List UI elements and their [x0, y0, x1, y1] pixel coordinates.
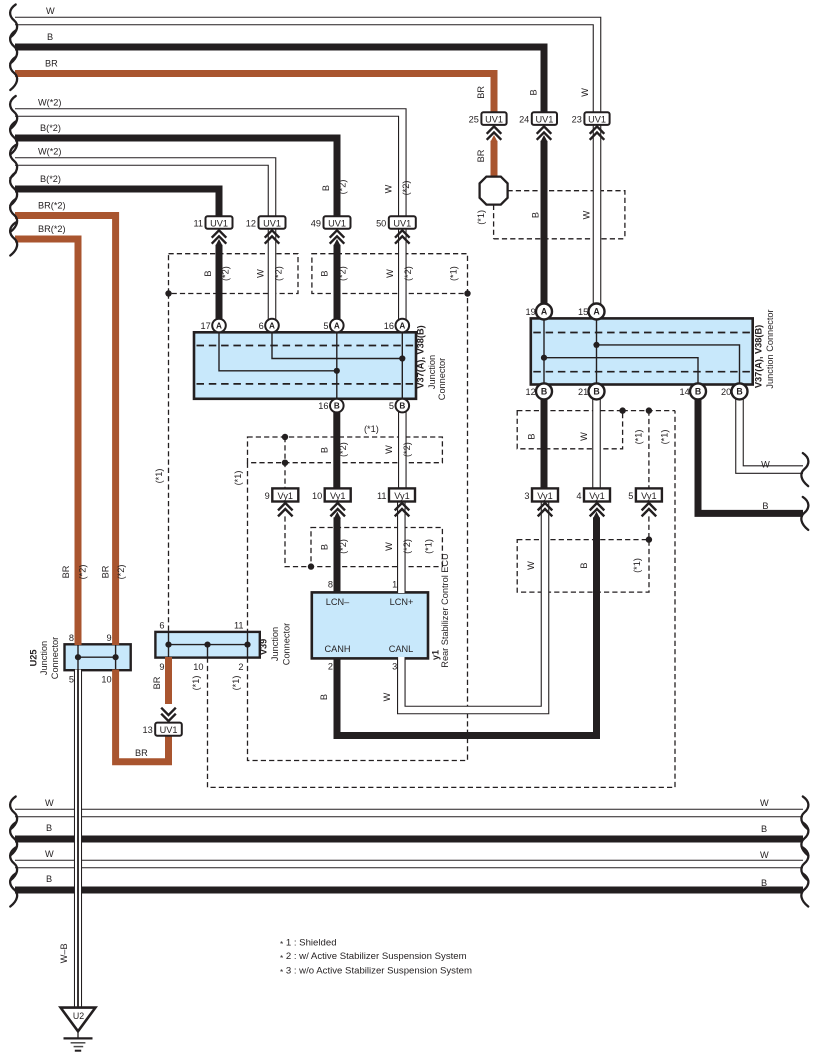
wire W-B from U25 pin 5 to ground U2 — [74, 670, 82, 1009]
connector 25 UV1 — [469, 112, 507, 142]
svg-text:W–B: W–B — [59, 943, 69, 963]
svg-text:2: 2 — [238, 662, 243, 672]
squiggle W row left — [10, 797, 17, 830]
shield box S1 top around 16B/5B wires — [248, 437, 443, 463]
junction connector U25 — [65, 644, 131, 670]
svg-text:16: 16 — [318, 401, 328, 411]
connector 49 UV1 — [311, 216, 351, 246]
svg-text:B: B — [762, 501, 768, 511]
connector 11 Vy1 — [377, 488, 415, 516]
wire W below 11 Vy1 to ECU pin 1 — [397, 502, 406, 593]
svg-text:BR: BR — [45, 59, 58, 69]
svg-text:BR: BR — [61, 565, 71, 578]
wire BR(*2) from left to U25 pin 8 — [15, 239, 78, 645]
svg-text:A: A — [269, 322, 275, 331]
wire BR top from left to 25 UV1 — [15, 74, 494, 114]
svg-text:Rear Stabilizer Control ECU: Rear Stabilizer Control ECU — [440, 553, 450, 667]
shield box S2 around ECU pin 8/1 wires — [311, 528, 442, 567]
squiggle B top — [10, 31, 17, 64]
svg-text:BR(*2): BR(*2) — [38, 201, 66, 211]
squiggle W row2 right — [801, 848, 808, 881]
svg-text:UV1: UV1 — [328, 218, 346, 228]
shield drain line from D1 to V39 pin 6 — [168, 294, 170, 632]
connector 11 UV1 — [193, 216, 232, 246]
svg-text:Junction Connector: Junction Connector — [765, 309, 775, 388]
svg-text:LCN–: LCN– — [326, 597, 350, 607]
svg-text:W: W — [581, 210, 591, 219]
svg-text:W: W — [526, 561, 536, 570]
svg-text:W(*2): W(*2) — [38, 98, 61, 108]
wire W pin 20B to right exit — [740, 392, 804, 470]
svg-text:(*2): (*2) — [338, 180, 348, 195]
svg-text:(*2): (*2) — [78, 565, 88, 580]
wire W(*2) from 50 UV1 to pin 16A — [398, 229, 407, 327]
wire B pin 12B to 3 Vy1 — [541, 393, 548, 489]
svg-text:B: B — [320, 271, 330, 277]
ECU y1 Rear Stabilizer Control ECU — [312, 592, 428, 658]
svg-text:A: A — [541, 307, 548, 317]
connector 9 Vy1 — [265, 488, 299, 516]
svg-text:(*1): (*1) — [154, 469, 164, 484]
svg-text:Connector: Connector — [437, 358, 447, 400]
svg-text:B: B — [761, 878, 767, 888]
connector 4 Vy1 — [576, 488, 610, 518]
squiggle B(*2) second — [10, 173, 17, 206]
svg-text:W: W — [384, 184, 394, 193]
wire B from 24 UV1 to pin 19A — [541, 141, 548, 313]
wire B ECU pin 2 to 4 Vy1 — [337, 517, 597, 735]
shield box around B/W wires below 12B/21B — [517, 411, 622, 449]
svg-text:UV1: UV1 — [160, 725, 178, 735]
shield drain below 5 Vy1 — [648, 516, 650, 539]
wire B(*2) from left to 11 UV1 — [15, 189, 219, 217]
svg-text:A: A — [399, 322, 405, 331]
svg-text:B: B — [695, 387, 701, 397]
junction connector V39 — [155, 632, 259, 658]
svg-text:5: 5 — [69, 674, 74, 684]
pin 19 A — [525, 304, 552, 320]
svg-text:Vy1: Vy1 — [641, 491, 657, 501]
connector 12 UV1 — [246, 216, 286, 244]
shield line below noise filter — [493, 205, 495, 239]
svg-text:UV1: UV1 — [263, 218, 281, 228]
shield box around W/B wires above right exits — [517, 540, 649, 593]
svg-text:(*1): (*1) — [233, 471, 243, 486]
svg-text:6: 6 — [259, 321, 264, 331]
svg-text:U2: U2 — [73, 1011, 84, 1021]
svg-text:B: B — [579, 562, 589, 568]
wire B from 11 UV1 to pin 17A — [216, 245, 223, 327]
svg-text:A: A — [334, 322, 340, 331]
wire W(*2) from left to 12 UV1 — [15, 162, 272, 219]
svg-text:12: 12 — [525, 387, 535, 397]
svg-text:(*2): (*2) — [338, 442, 348, 457]
connector 24 UV1 — [519, 112, 557, 142]
svg-text:W: W — [46, 6, 55, 16]
svg-text:9: 9 — [106, 633, 111, 643]
ground symbol U2 — [61, 1008, 96, 1051]
connector 23 UV1 — [572, 112, 610, 139]
svg-text:11: 11 — [234, 621, 244, 631]
svg-text:Vy1: Vy1 — [278, 491, 294, 501]
svg-text:A: A — [216, 322, 222, 331]
svg-text:y1: y1 — [431, 650, 441, 660]
shield top rail to outer right shield — [623, 410, 675, 412]
svg-text:5: 5 — [628, 491, 633, 501]
svg-text:B: B — [527, 433, 537, 439]
wire W(*2) from left to 50 UV1 — [15, 113, 402, 219]
svg-text:8: 8 — [69, 633, 74, 643]
svg-text:B: B — [203, 271, 213, 277]
svg-text:B: B — [541, 387, 547, 397]
svg-text:B: B — [46, 874, 52, 884]
svg-text:CANH: CANH — [324, 644, 350, 654]
svg-text:(*1): (*1) — [634, 430, 644, 445]
pin 15 A — [578, 304, 605, 320]
shield drain below 9 Vy1 to S2 — [285, 516, 311, 566]
connector 5 Vy1 — [628, 488, 662, 516]
svg-text:(*2): (*2) — [402, 442, 412, 457]
svg-text:UV1: UV1 — [535, 114, 553, 124]
svg-text:Junction: Junction — [39, 641, 49, 675]
svg-text:Vy1: Vy1 — [394, 491, 410, 501]
svg-text:UV1: UV1 — [393, 218, 411, 228]
svg-text:B: B — [530, 212, 540, 218]
svg-text:V39: V39 — [259, 639, 269, 655]
svg-text:B: B — [399, 402, 405, 411]
shield junction dots — [165, 290, 652, 570]
svg-text:Connector: Connector — [282, 623, 292, 665]
block name labels — [29, 309, 775, 679]
svg-text:(*1): (*1) — [424, 539, 434, 554]
wire B lower horizontal full width — [15, 836, 803, 843]
wire B top from left to 24 UV1 — [15, 47, 544, 113]
svg-text:U25: U25 — [29, 650, 39, 667]
pin 16 A — [384, 319, 409, 333]
pin 14 B — [679, 383, 706, 399]
svg-text:12: 12 — [246, 218, 256, 228]
svg-text:Vy1: Vy1 — [537, 491, 553, 501]
svg-text:8: 8 — [328, 579, 333, 589]
svg-text:B(*2): B(*2) — [40, 174, 61, 184]
svg-text:(*2): (*2) — [274, 266, 284, 281]
svg-text:UV1: UV1 — [588, 114, 606, 124]
svg-text:(*2): (*2) — [401, 181, 411, 196]
svg-text:BR: BR — [476, 149, 486, 162]
svg-text:(*1): (*1) — [659, 430, 669, 445]
svg-text:LCN+: LCN+ — [390, 597, 414, 607]
svg-text:14: 14 — [679, 387, 689, 397]
svg-text:23: 23 — [572, 114, 582, 124]
noise filter octagon — [480, 177, 508, 205]
squiggle BR(*2) — [10, 199, 17, 232]
svg-text:Connector: Connector — [50, 637, 60, 679]
junction connector V37(A),V38(B) right block — [531, 318, 753, 384]
svg-text:(*1): (*1) — [476, 210, 486, 225]
wire W from 23 UV1 to pin 15A — [593, 126, 602, 314]
svg-text:(*2): (*2) — [403, 266, 413, 281]
wire W from 12 UV1 to pin 6A — [268, 229, 277, 327]
svg-text:(*2): (*2) — [338, 266, 348, 281]
shield box D1 around 11/12 wires — [169, 254, 299, 294]
wire B(*2) pin 16B to 10 Vy1 — [333, 407, 340, 489]
svg-text:W: W — [761, 459, 770, 469]
svg-text:B: B — [761, 824, 767, 834]
shield path V39 pin 2 to right side of ECU shield — [248, 294, 468, 761]
squiggle W row2 left — [10, 848, 17, 881]
connector 10 Vy1 — [312, 488, 351, 518]
svg-text:24: 24 — [519, 114, 529, 124]
svg-text:25: 25 — [469, 114, 479, 124]
svg-text:1: 1 — [392, 579, 397, 589]
svg-text:BR: BR — [476, 86, 486, 99]
wire W ECU pin 3 to 3 Vy1 — [401, 502, 545, 710]
svg-text:(*2): (*2) — [221, 266, 231, 281]
shield path V39 pin 10 to outer right shield — [208, 411, 676, 788]
svg-text:15: 15 — [578, 307, 588, 317]
junction connector V37(A),V38(B) left block — [194, 332, 416, 399]
svg-text:(*2): (*2) — [338, 539, 348, 554]
svg-text:10: 10 — [312, 491, 322, 501]
wire W lower horizontal full width — [15, 860, 803, 869]
svg-text:BR(*2): BR(*2) — [38, 224, 66, 234]
svg-text:Junction: Junction — [270, 627, 280, 661]
svg-text:(*1): (*1) — [449, 266, 459, 281]
svg-text:5: 5 — [323, 321, 328, 331]
wire W top from left to 23 UV1 — [15, 21, 597, 114]
wire W upper horizontal full width — [15, 809, 803, 818]
pin 20 B — [721, 383, 748, 399]
svg-text:UV1: UV1 — [210, 218, 228, 228]
shield drain to 5 Vy1 — [648, 411, 650, 489]
squiggle W row right — [801, 797, 808, 830]
squiggle W top — [10, 5, 17, 38]
svg-text:Vy1: Vy1 — [330, 491, 346, 501]
svg-text:A: A — [593, 307, 600, 317]
svg-text:50: 50 — [376, 218, 386, 228]
wire B pin 14B to right exit — [698, 393, 803, 513]
svg-text:49: 49 — [311, 218, 321, 228]
wire B(*2) from 49 UV1 to pin 5A — [334, 245, 341, 327]
svg-text:9: 9 — [159, 662, 164, 672]
squiggle W(*2) — [10, 96, 17, 129]
wire B bottom horizontal full width — [15, 887, 803, 894]
wire BR U25 pin 10 to 13 UV1 lower side — [116, 670, 169, 762]
svg-text:21: 21 — [578, 387, 588, 397]
connector 13 UV1 — [142, 708, 181, 736]
svg-text:13: 13 — [142, 725, 152, 735]
svg-text:3: 3 — [392, 662, 397, 672]
squiggle B exit right — [801, 497, 808, 530]
svg-text:W(*2): W(*2) — [38, 147, 61, 157]
svg-text:Junction: Junction — [427, 355, 437, 389]
svg-text:W: W — [384, 542, 394, 551]
svg-text:(*1): (*1) — [364, 424, 379, 434]
wire W(*2) pin 5B to 11 Vy1 — [398, 406, 407, 489]
svg-text:B: B — [319, 694, 329, 700]
svg-text:W: W — [382, 692, 392, 701]
wire B below 10 Vy1 to ECU pin 8 — [334, 517, 341, 593]
svg-text:W: W — [45, 849, 54, 859]
pin 16 B — [318, 399, 343, 413]
svg-text:9: 9 — [265, 491, 270, 501]
svg-text:V37(A), V38(B): V37(A), V38(B) — [754, 325, 764, 388]
shield drain from S1 to V39 pin 11 — [247, 463, 249, 632]
pin 5 A — [323, 319, 343, 333]
squiggle BR(*2) second — [10, 223, 17, 256]
pin 6 A — [259, 319, 279, 333]
svg-text:W: W — [760, 850, 769, 860]
svg-text:B: B — [46, 823, 52, 833]
svg-text:V37(A), V38(B): V37(A), V38(B) — [416, 325, 426, 388]
connector 3 Vy1 — [524, 488, 558, 516]
svg-text:W: W — [579, 432, 589, 441]
svg-text:W: W — [384, 445, 394, 454]
svg-text:W: W — [385, 269, 395, 278]
squiggle BR top — [10, 57, 17, 90]
svg-text:16: 16 — [384, 321, 394, 331]
squiggle B row2 left — [10, 874, 17, 907]
svg-text:17: 17 — [200, 321, 210, 331]
svg-text:B: B — [736, 387, 742, 397]
svg-text:* 2 : w/ Active Stabilizer Sus: * 2 : w/ Active Stabilizer Suspension Sy… — [280, 951, 467, 963]
pin 5 B — [389, 399, 409, 413]
svg-text:11: 11 — [377, 491, 387, 501]
svg-text:(*2): (*2) — [402, 539, 412, 554]
wire BR V39 pin 9 to 13 UV1 — [165, 657, 172, 704]
svg-text:2: 2 — [328, 662, 333, 672]
shield drain line to 9 Vy1 — [284, 437, 286, 488]
svg-text:BR: BR — [101, 565, 111, 578]
svg-text:B: B — [321, 185, 331, 191]
svg-text:B: B — [334, 402, 340, 411]
svg-text:B: B — [320, 447, 330, 453]
squiggle W exit right — [801, 453, 808, 486]
pin 17 A — [200, 319, 225, 333]
squiggle B row left — [10, 823, 17, 856]
svg-text:3: 3 — [524, 491, 529, 501]
connector 50 UV1 — [376, 216, 416, 244]
wire B(*2) from left to 49 UV1 — [15, 138, 337, 217]
svg-text:UV1: UV1 — [485, 114, 503, 124]
svg-text:(*1): (*1) — [191, 676, 201, 691]
svg-text:(*1): (*1) — [632, 558, 642, 573]
svg-text:4: 4 — [576, 491, 581, 501]
svg-text:Vy1: Vy1 — [589, 491, 605, 501]
wire BR(*2) from left to U25 pin 9 — [15, 216, 116, 646]
svg-text:W: W — [580, 88, 590, 97]
squiggle B(*2) — [10, 122, 17, 155]
squiggle W(*2) second — [10, 145, 17, 178]
shield box D2 around 49/50 wires — [312, 254, 468, 294]
svg-text:W: W — [45, 798, 54, 808]
svg-text:* 3 : w/o Active Stabilizer Su: * 3 : w/o Active Stabilizer Suspension S… — [280, 965, 472, 977]
svg-text:BR: BR — [152, 676, 162, 689]
svg-text:B: B — [47, 32, 53, 42]
shield box right of noise filter — [494, 191, 625, 239]
svg-text:19: 19 — [525, 307, 535, 317]
svg-text:CANL: CANL — [389, 644, 414, 654]
svg-text:B: B — [320, 544, 330, 550]
svg-text:(*2): (*2) — [116, 565, 126, 580]
svg-text:10: 10 — [193, 662, 203, 672]
wire BR from 25 UV1 to noise filter — [491, 141, 498, 178]
pin 21 B — [578, 383, 605, 399]
svg-text:5: 5 — [389, 401, 394, 411]
svg-text:* 1 : Shielded: * 1 : Shielded — [280, 937, 337, 949]
svg-text:W: W — [760, 798, 769, 808]
svg-text:6: 6 — [159, 621, 164, 631]
squiggle B row2 right — [801, 874, 808, 907]
svg-text:B: B — [528, 89, 538, 95]
squiggle B row right — [801, 823, 808, 856]
pin 12 B — [525, 383, 552, 399]
svg-text:W: W — [255, 269, 265, 278]
footnotes — [280, 937, 472, 977]
svg-text:B: B — [593, 387, 599, 397]
svg-text:20: 20 — [721, 387, 731, 397]
svg-text:B(*2): B(*2) — [40, 123, 61, 133]
svg-text:BR: BR — [135, 748, 148, 758]
wire W pin 21B to 4 Vy1 — [592, 392, 601, 489]
svg-text:(*1): (*1) — [231, 676, 241, 691]
svg-text:10: 10 — [101, 674, 111, 684]
svg-text:11: 11 — [193, 218, 203, 228]
